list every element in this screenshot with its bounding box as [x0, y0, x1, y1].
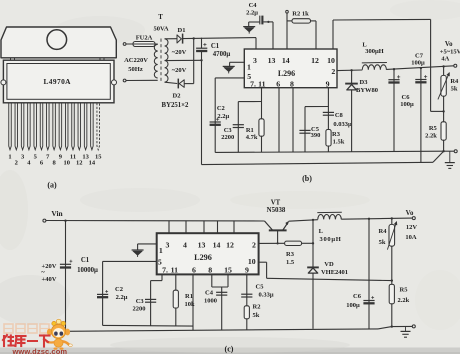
svg-text:2200: 2200	[133, 305, 146, 312]
svg-text:12V: 12V	[406, 224, 418, 231]
svg-text:Vin: Vin	[51, 209, 62, 218]
svg-text:C6: C6	[353, 293, 362, 300]
svg-text:~20V: ~20V	[172, 67, 187, 74]
svg-text:C2: C2	[115, 286, 123, 293]
svg-text:C8: C8	[335, 112, 344, 119]
svg-text:VT: VT	[271, 199, 281, 206]
svg-text:10: 10	[63, 160, 70, 167]
svg-text:4A: 4A	[441, 56, 449, 63]
svg-text:8: 8	[290, 80, 294, 89]
svg-text:2.2k: 2.2k	[398, 297, 410, 304]
svg-text:10A: 10A	[405, 234, 417, 241]
svg-text:4: 4	[183, 240, 187, 249]
svg-text:300μH: 300μH	[365, 48, 384, 55]
svg-text:C2: C2	[217, 105, 225, 112]
svg-text:C1: C1	[81, 257, 90, 264]
svg-text:+40V: +40V	[42, 276, 57, 283]
svg-text:10: 10	[327, 56, 335, 65]
svg-text:R5: R5	[400, 286, 409, 293]
svg-text:0.033μ: 0.033μ	[333, 121, 352, 128]
svg-text:FU2A: FU2A	[136, 35, 153, 42]
svg-text:C4: C4	[249, 2, 258, 9]
svg-text:BY251×2: BY251×2	[162, 102, 190, 109]
svg-text:~20V: ~20V	[172, 49, 187, 56]
svg-text:7.: 7.	[250, 80, 256, 89]
svg-text:1000: 1000	[204, 298, 217, 305]
svg-text:R1: R1	[185, 293, 193, 300]
svg-text:D1: D1	[178, 27, 186, 34]
svg-text:www.dzsc.com: www.dzsc.com	[11, 347, 67, 354]
svg-text:3: 3	[253, 56, 257, 65]
svg-text:2.2μ: 2.2μ	[246, 10, 258, 17]
svg-text:(b): (b)	[302, 174, 312, 183]
svg-text:5k: 5k	[253, 312, 260, 319]
svg-text:R3: R3	[286, 251, 295, 258]
svg-text:11: 11	[258, 80, 265, 89]
svg-text:(a): (a)	[47, 181, 57, 190]
svg-text:L296: L296	[278, 69, 295, 78]
svg-text:14: 14	[89, 160, 96, 167]
svg-text:15: 15	[95, 154, 102, 161]
svg-text:2.2μ: 2.2μ	[116, 294, 128, 301]
svg-text:6: 6	[276, 80, 280, 89]
svg-text:Vo: Vo	[445, 41, 453, 48]
svg-text:L296: L296	[194, 253, 212, 262]
svg-text:R5: R5	[429, 125, 438, 132]
svg-text:R2 1k: R2 1k	[292, 10, 309, 17]
svg-text:100μ: 100μ	[346, 302, 360, 309]
svg-text:+5~15V: +5~15V	[440, 48, 460, 55]
svg-text:10: 10	[248, 257, 256, 266]
svg-text:VHE2401: VHE2401	[321, 269, 348, 276]
svg-text:C5: C5	[256, 284, 265, 291]
svg-text:1: 1	[247, 62, 251, 71]
svg-text:C1: C1	[211, 43, 220, 50]
svg-text:9: 9	[245, 265, 249, 274]
svg-text:14: 14	[213, 240, 221, 249]
svg-text:5k: 5k	[379, 239, 386, 246]
svg-text:1: 1	[8, 154, 11, 161]
svg-text:4700μ: 4700μ	[213, 51, 231, 58]
svg-text:390: 390	[311, 132, 321, 139]
svg-text:50Hz: 50Hz	[128, 66, 143, 73]
svg-text:6: 6	[192, 265, 196, 274]
svg-text:12: 12	[76, 160, 83, 167]
svg-text:(c): (c)	[225, 345, 234, 354]
svg-text:2: 2	[331, 67, 335, 76]
svg-text:R1: R1	[246, 127, 254, 134]
svg-text:Vo: Vo	[406, 210, 414, 217]
svg-text:100μ: 100μ	[411, 60, 425, 67]
svg-text:AC220V: AC220V	[124, 57, 148, 64]
svg-text:50VA: 50VA	[153, 26, 168, 33]
svg-text:L4970A: L4970A	[43, 77, 71, 86]
svg-text:C7: C7	[415, 52, 424, 59]
svg-text:D2: D2	[173, 92, 181, 99]
svg-text:N5038: N5038	[267, 207, 286, 214]
svg-text:2.2μ: 2.2μ	[217, 113, 229, 120]
svg-text:15: 15	[224, 265, 232, 274]
svg-text:R3: R3	[332, 131, 341, 138]
svg-text:1.5k: 1.5k	[333, 138, 345, 145]
svg-text:9: 9	[326, 80, 330, 89]
svg-text:10000μ: 10000μ	[77, 267, 98, 274]
svg-text:VD: VD	[324, 261, 334, 268]
svg-text:R4: R4	[450, 78, 459, 85]
svg-text:300μH: 300μH	[320, 236, 342, 243]
svg-text:C4: C4	[205, 290, 214, 297]
svg-text:8: 8	[208, 265, 212, 274]
svg-text:R4: R4	[379, 228, 388, 235]
svg-text:0.33μ: 0.33μ	[258, 292, 273, 299]
svg-text:R2: R2	[253, 304, 261, 311]
svg-text:C6: C6	[402, 94, 411, 101]
svg-text:C3: C3	[224, 127, 233, 134]
svg-text:1.5: 1.5	[286, 259, 295, 266]
svg-text:12: 12	[311, 56, 319, 65]
svg-text:2.2k: 2.2k	[425, 132, 437, 139]
svg-text:C3: C3	[136, 298, 145, 305]
svg-text:D3: D3	[360, 79, 369, 86]
svg-text:T: T	[158, 14, 163, 21]
svg-text:2: 2	[252, 240, 256, 249]
svg-text:BYW80: BYW80	[356, 87, 378, 94]
svg-text:13: 13	[268, 56, 276, 65]
svg-text:1: 1	[159, 246, 163, 255]
svg-text:2200: 2200	[221, 134, 234, 141]
svg-text:4.7k: 4.7k	[246, 134, 258, 141]
svg-text:100μ: 100μ	[400, 101, 414, 108]
svg-text:12: 12	[226, 240, 234, 249]
svg-text:2: 2	[15, 160, 18, 167]
svg-text:14: 14	[282, 56, 290, 65]
svg-text:L: L	[319, 228, 324, 235]
svg-text:3: 3	[166, 240, 170, 249]
svg-text:13: 13	[198, 240, 206, 249]
svg-text:7.: 7.	[162, 265, 168, 274]
svg-text:11: 11	[171, 265, 178, 274]
svg-text:5k: 5k	[451, 85, 458, 92]
